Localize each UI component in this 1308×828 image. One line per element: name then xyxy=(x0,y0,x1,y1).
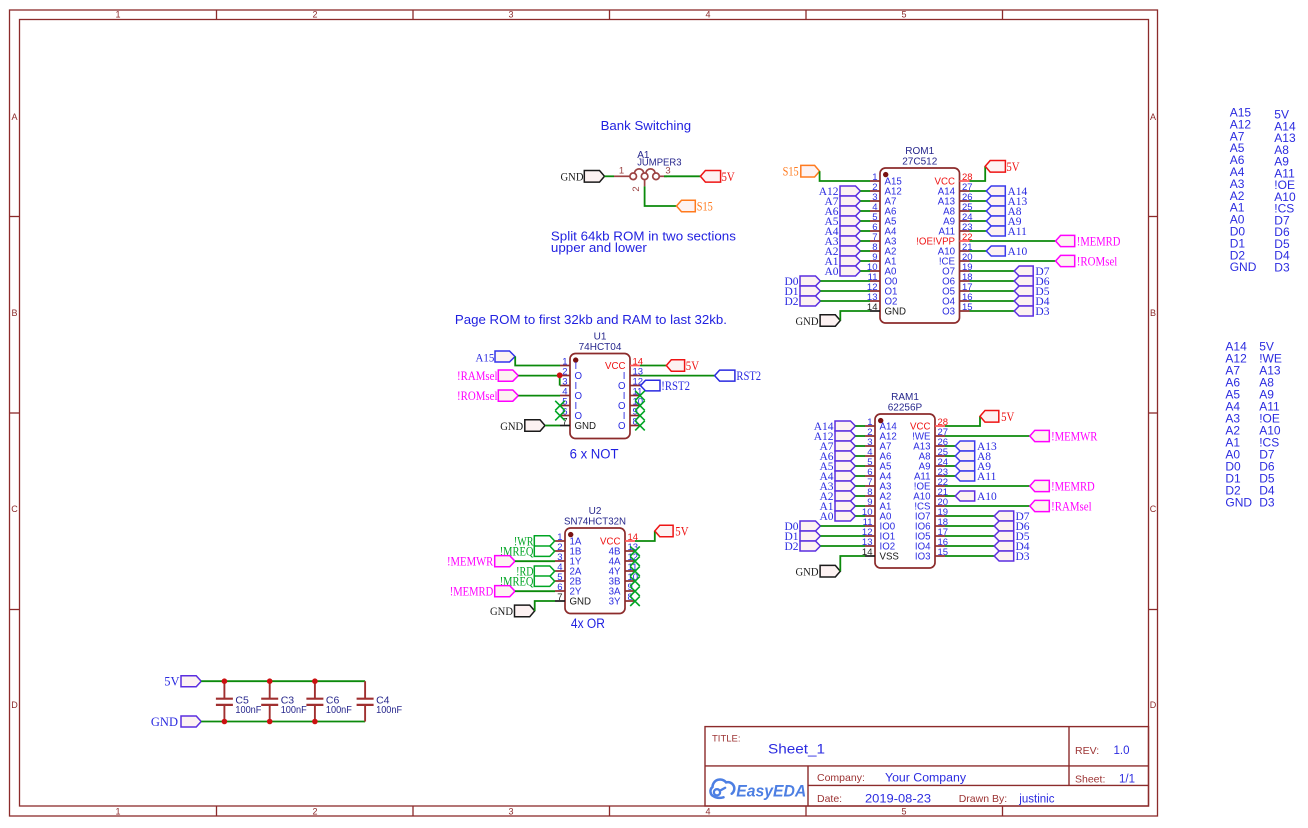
svg-text:D: D xyxy=(1150,700,1157,710)
capacitor C3 100nF xyxy=(261,681,307,721)
RAM1 pin 24 (A9) xyxy=(919,457,948,473)
no-connect X U2 pin 10 xyxy=(630,576,640,586)
ROM1 pin 23 (A11) xyxy=(938,222,972,238)
svg-text:5: 5 xyxy=(901,9,906,19)
net flag A11 (RAM1 pin 23) xyxy=(955,471,996,483)
ROM1 pin 16 (O4) xyxy=(942,292,973,308)
net flag A1 (RAM1 pin 9) xyxy=(819,501,855,513)
svg-text:A: A xyxy=(1150,112,1156,122)
RAM1 pin 27 (!WE) xyxy=(912,427,948,443)
svg-text:D3: D3 xyxy=(1016,551,1030,563)
wire ROM1 pin 27 to A14 xyxy=(970,190,987,192)
wire A1 to ROM1 pin 9 xyxy=(860,260,870,262)
ROM1 pin 22 (!OE!VPP) xyxy=(916,232,972,248)
ROM1 pin 26 (A13) xyxy=(938,192,973,208)
IC U2 SN74HCT32N body xyxy=(564,506,626,614)
svg-text:GND: GND xyxy=(575,421,597,432)
ROM1 pin 6 (A4) xyxy=(870,222,897,238)
net flag A13 (RAM1 pin 26) xyxy=(955,441,997,453)
net flag A15 (U1 pin 1) xyxy=(476,351,516,364)
svg-text:RAM1: RAM1 xyxy=(891,392,919,403)
U2 pin 3 (1Y) xyxy=(555,552,582,568)
svg-text:D3: D3 xyxy=(1035,306,1049,318)
net flag !MEMRD (ROM1 pin 22) xyxy=(1056,234,1121,248)
wire ROM1 pin 22 to !MEMRD xyxy=(970,240,1056,242)
svg-text:!MEMRD: !MEMRD xyxy=(1051,479,1095,493)
net flag !ROMsel (ROM1 pin 20) xyxy=(1056,254,1118,268)
svg-text:O: O xyxy=(618,421,626,432)
RAM1 pin 23 (A11) xyxy=(914,467,948,483)
net name list (RAM socket) xyxy=(1225,339,1281,509)
svg-text:GND: GND xyxy=(1225,495,1252,509)
ROM1 pin 5 (A5) xyxy=(870,212,896,228)
ROM1 pin 13 (O2) xyxy=(867,292,898,308)
svg-text:GND: GND xyxy=(1230,260,1257,274)
RAM1 pin 21 (A10) xyxy=(913,487,948,503)
no-connect X U2 pin 9 xyxy=(630,586,640,596)
net flag !RD (U2 pin 4) xyxy=(516,565,555,579)
capacitor C4 100nF xyxy=(357,681,403,721)
wire RAM1 pin 27 to !MEMWR xyxy=(945,435,1030,437)
wire A7 to ROM1 pin 3 xyxy=(860,200,870,202)
power flag 5V (RAM1 VCC) xyxy=(980,410,1014,424)
wire RAM1 pin 15 to D3 xyxy=(945,555,994,557)
no-connect X U2 pin 13 xyxy=(630,546,640,556)
net flag A12 (ROM1 pin 2) xyxy=(819,186,861,198)
svg-text:!MEMRD: !MEMRD xyxy=(1077,234,1121,248)
svg-text:62256P: 62256P xyxy=(888,403,923,414)
net flag A10 (ROM1 pin 21) xyxy=(986,246,1027,258)
net flag !RAMsel (RAM1 pin 20) xyxy=(1030,499,1092,513)
wire !MEMWR to U2 pin 3 xyxy=(515,560,555,562)
U1 pin 11 (I) xyxy=(623,386,643,402)
svg-text:B: B xyxy=(1150,308,1156,318)
wire A15 to U1 pin 1 xyxy=(515,357,560,366)
IC ROM1 27C512 body xyxy=(880,146,960,323)
wire D2 to ROM1 pin 13 xyxy=(820,300,870,302)
svg-text:Date:: Date: xyxy=(817,793,842,805)
junction (GND rail) xyxy=(267,719,273,725)
svg-text:Your Company: Your Company xyxy=(885,773,966,785)
svg-text:Company:: Company: xyxy=(817,772,865,784)
wire ROM1 pin 24 to A9 xyxy=(970,220,987,222)
wire RAM1 pin 16 to D4 xyxy=(945,545,994,547)
net flag A14 (ROM1 pin 27) xyxy=(986,186,1027,198)
net flag !MREQ (U2 pin 2) xyxy=(500,545,555,559)
wire A2 to RAM1 pin 8 xyxy=(855,495,865,497)
svg-text:5V: 5V xyxy=(675,524,688,538)
wire jumper A1 pin 2 to S15 xyxy=(645,186,677,206)
svg-text:100nF: 100nF xyxy=(235,704,261,716)
RAM1 pin 7 (A3) xyxy=(865,477,891,493)
svg-text:U2: U2 xyxy=(589,506,602,517)
net flag !RAMsel (U1 pin 2) xyxy=(457,369,518,383)
net flag A8 (ROM1 pin 25) xyxy=(986,206,1022,218)
svg-text:GND: GND xyxy=(500,421,523,433)
U1 pin 6 (O) xyxy=(560,406,583,422)
net flag !MEMWR (U2 pin 3) xyxy=(447,555,515,569)
wire GND to U1 pin 7 xyxy=(545,425,560,427)
RAM1 pin 25 (A8) xyxy=(919,447,948,463)
wire GND to RAM1 pin 14 xyxy=(840,556,865,571)
U1 pin 8 (O) xyxy=(618,416,640,432)
svg-text:1.0: 1.0 xyxy=(1114,745,1130,757)
net flag D7 (RAM1 pin 19) xyxy=(994,511,1030,523)
U1 pin 10 (O) xyxy=(618,396,643,412)
junction (GND rail) xyxy=(222,719,228,725)
wire A7 to RAM1 pin 3 xyxy=(855,445,865,447)
wire !MEMRD to U2 pin 6 xyxy=(515,590,555,592)
svg-text:2019-08-23: 2019-08-23 xyxy=(865,794,931,806)
wire GND to jumper A1 pin 1 xyxy=(605,175,615,177)
net flag A0 (ROM1 pin 10) xyxy=(824,266,860,278)
net flag D3 (RAM1 pin 15) xyxy=(994,551,1030,563)
ROM1 pin 9 (A1) xyxy=(870,252,896,268)
svg-text:IO3: IO3 xyxy=(915,552,931,563)
net flag D0 (ROM1 pin 11) xyxy=(784,276,820,288)
svg-text:RST2: RST2 xyxy=(736,369,761,383)
svg-text:D: D xyxy=(11,700,18,710)
RAM1 pin 26 (A13) xyxy=(913,437,948,453)
wire A3 to ROM1 pin 7 xyxy=(860,240,870,242)
net flag D7 (ROM1 pin 19) xyxy=(1014,266,1050,278)
EasyEDA logo xyxy=(710,779,806,800)
wire D2 to RAM1 pin 13 xyxy=(820,545,865,547)
no-connect X U2 pin 12 xyxy=(630,556,640,566)
power flag 5V (U1 VCC) xyxy=(666,359,699,373)
IC U1 74HCT04 body xyxy=(570,331,630,438)
net flag D4 (RAM1 pin 16) xyxy=(994,541,1030,553)
wire U1 pin 13 to RST2 xyxy=(640,375,715,377)
net flag A8 (RAM1 pin 25) xyxy=(955,451,991,463)
U1 pin 9 (I) xyxy=(623,406,640,422)
wire A5 to ROM1 pin 5 xyxy=(860,220,870,222)
net flag A9 (RAM1 pin 24) xyxy=(955,461,991,473)
RAM1 pin 17 (IO5) xyxy=(915,527,948,543)
svg-text:4: 4 xyxy=(705,9,710,19)
wire ROM1 pin 25 to A8 xyxy=(970,210,987,212)
RAM1 pin 13 (IO2) xyxy=(862,537,895,553)
svg-text:!ROMsel: !ROMsel xyxy=(457,389,498,403)
ground flag GND (ROM1 pin 14) xyxy=(796,315,841,328)
U2 pin 11 (4Y) xyxy=(609,562,638,578)
svg-text:VSS: VSS xyxy=(880,552,900,563)
svg-text:100nF: 100nF xyxy=(326,704,352,716)
net flag A2 (ROM1 pin 8) xyxy=(824,246,860,258)
U1 pin 14 (VCC) xyxy=(605,356,643,372)
wire D1 to ROM1 pin 12 xyxy=(820,290,870,292)
wire RAM1 pin 25 to A8 xyxy=(945,455,955,457)
svg-text:justinic: justinic xyxy=(1018,794,1054,806)
capacitor C6 100nF xyxy=(306,681,352,721)
ROM1 pin 25 (A8) xyxy=(943,202,972,218)
svg-text:6 x NOT: 6 x NOT xyxy=(570,447,619,462)
RAM1 pin 4 (A6) xyxy=(865,447,891,463)
net flag D2 (RAM1 pin 13) xyxy=(784,541,820,553)
svg-text:Drawn By:: Drawn By: xyxy=(959,793,1007,805)
wire A2 to ROM1 pin 8 xyxy=(860,250,870,252)
net flag A6 (RAM1 pin 4) xyxy=(819,451,855,463)
ROM1 pin 15 (O3) xyxy=(942,302,973,318)
ROM1 pin 11 (O0) xyxy=(868,272,898,288)
wire S15 to ROM1 pin 1 xyxy=(820,171,870,181)
svg-text:A: A xyxy=(11,112,17,122)
wire D1 to RAM1 pin 12 xyxy=(820,535,865,537)
U2 pin 2 (1B) xyxy=(555,542,581,558)
no-connect X U2 pin 8 xyxy=(630,596,640,606)
wire A0 to RAM1 pin 10 xyxy=(855,515,865,517)
svg-text:ROM1: ROM1 xyxy=(905,146,934,157)
RAM1 pin 8 (A2) xyxy=(865,487,891,503)
wire D0 to ROM1 pin 11 xyxy=(820,280,870,282)
net flag A10 (RAM1 pin 21) xyxy=(955,491,997,503)
wire A5 to RAM1 pin 5 xyxy=(855,465,865,467)
no-connect X U1 pin 10 xyxy=(635,401,645,411)
RAM1 pin 28 (VCC) xyxy=(910,417,948,433)
ROM1 pin 27 (A14) xyxy=(938,182,973,198)
RAM1 pin 11 (IO0) xyxy=(863,517,896,533)
RAM1 pin 2 (A12) xyxy=(865,427,897,443)
U2 pin 14 (VCC) xyxy=(600,532,638,548)
wire 5V rail xyxy=(201,680,365,682)
net flag A3 (RAM1 pin 7) xyxy=(819,481,855,493)
net flag D5 (RAM1 pin 17) xyxy=(994,531,1030,543)
svg-text:GND: GND xyxy=(796,316,819,328)
ROM1 pin 24 (A9) xyxy=(943,212,972,228)
svg-text:S15: S15 xyxy=(697,199,713,213)
svg-text:O3: O3 xyxy=(942,307,955,318)
capacitor C5 100nF xyxy=(216,681,262,721)
wire D0 to RAM1 pin 11 xyxy=(820,525,865,527)
U1 pin 7 (GND) xyxy=(560,416,596,432)
wire A0 to ROM1 pin 10 xyxy=(860,270,870,272)
ground flag GND (cap bank) xyxy=(151,715,201,729)
svg-text:EasyEDA: EasyEDA xyxy=(736,782,806,801)
net flag RST2 (U1 pin 13) xyxy=(715,369,762,383)
U2 pin 9 (3A) xyxy=(609,582,635,598)
net flag S15 (ROM1 pin 1) xyxy=(783,165,820,179)
RAM1 pin 18 (IO6) xyxy=(915,517,948,533)
net flag A11 (ROM1 pin 23) xyxy=(986,226,1027,238)
ROM1 pin 2 (A12) xyxy=(870,182,902,198)
net flag A7 (RAM1 pin 3) xyxy=(819,441,855,453)
wire ROM1 pin 28 to 5V xyxy=(970,166,986,181)
U2 pin 1 (1A) xyxy=(555,532,582,548)
wire RAM1 pin 28 to 5V xyxy=(945,416,980,426)
svg-text:1: 1 xyxy=(619,165,624,176)
svg-text:3: 3 xyxy=(665,165,670,176)
U2 pin 13 (4B) xyxy=(609,542,638,558)
svg-text:A10: A10 xyxy=(1008,246,1028,258)
ROM1 pin 12 (O1) xyxy=(867,282,898,298)
svg-text:REV:: REV: xyxy=(1075,745,1099,757)
ground flag GND (U1 pin 7) xyxy=(500,420,545,433)
svg-text:A15: A15 xyxy=(476,352,495,364)
svg-text:A0: A0 xyxy=(824,266,838,278)
wire ROM1 pin 18 to D6 xyxy=(970,280,1015,282)
RAM1 pin 16 (IO4) xyxy=(915,537,948,553)
ground flag GND (RAM1 pin 14) xyxy=(796,565,841,578)
svg-text:B: B xyxy=(11,308,17,318)
ROM1 pin 20 (!CE) xyxy=(939,252,973,268)
svg-text:1/1: 1/1 xyxy=(1119,774,1135,786)
ROM1 pin 21 (A10) xyxy=(938,242,973,258)
ROM1 pin 10 (A0) xyxy=(867,262,897,278)
wire U2 pin 14 to 5V xyxy=(635,531,655,541)
svg-text:!RAMsel: !RAMsel xyxy=(1051,499,1092,513)
wire GND to U2 pin 7 xyxy=(535,601,555,611)
wire RAM1 pin 22 to !MEMRD xyxy=(945,485,1030,487)
wire ROM1 pin 20 to !ROMsel xyxy=(970,260,1056,262)
svg-text:D2: D2 xyxy=(784,541,798,553)
wire RAM1 pin 19 to D7 xyxy=(945,515,994,517)
svg-text:7: 7 xyxy=(557,592,562,603)
svg-text:3: 3 xyxy=(508,9,513,19)
RAM1 pin 6 (A4) xyxy=(865,467,892,483)
svg-text:U1: U1 xyxy=(594,331,607,342)
U2 pin 6 (2Y) xyxy=(555,582,582,598)
svg-text:5: 5 xyxy=(901,806,906,816)
net flag D5 (ROM1 pin 17) xyxy=(1014,286,1050,298)
U2 pin 10 (3B) xyxy=(609,572,638,588)
svg-text:JUMPER3: JUMPER3 xyxy=(637,158,682,169)
net flag A13 (ROM1 pin 26) xyxy=(986,196,1027,208)
svg-text:D3: D3 xyxy=(1259,495,1275,509)
U2 pin 12 (4A) xyxy=(609,552,638,568)
svg-text:!RAMsel: !RAMsel xyxy=(457,369,498,383)
svg-text:GND: GND xyxy=(570,597,592,608)
power flag 5V (ROM1 VCC) xyxy=(985,160,1019,174)
svg-text:Page ROM to first 32kb and RAM: Page ROM to first 32kb and RAM to last 3… xyxy=(455,313,727,327)
junction (U1 pin 2/3) xyxy=(557,372,563,378)
wire RAM1 pin 20 to !RAMsel xyxy=(945,505,1030,507)
RAM1 pin 19 (IO7) xyxy=(915,507,948,523)
svg-text:2: 2 xyxy=(312,9,317,19)
no-connect X U1 pin 8 xyxy=(635,421,645,431)
wire A14 to RAM1 pin 1 xyxy=(855,425,865,427)
svg-text:Sheet_1: Sheet_1 xyxy=(768,742,825,757)
ROM1 pin 4 (A6) xyxy=(870,202,896,218)
wire RAM1 pin 21 to A10 xyxy=(945,495,955,497)
wire ROM1 pin 21 to A10 xyxy=(970,250,987,252)
IC RAM1 62256P body xyxy=(875,392,935,568)
svg-text:1: 1 xyxy=(115,806,120,816)
svg-text:D2: D2 xyxy=(784,296,798,308)
svg-text:4: 4 xyxy=(705,806,710,816)
svg-text:D3: D3 xyxy=(1274,260,1290,274)
ROM1 pin 17 (O5) xyxy=(942,282,973,298)
junction (5V rail) xyxy=(267,678,273,684)
svg-text:C: C xyxy=(11,504,18,514)
junction (5V rail) xyxy=(222,678,228,684)
wire A3 to RAM1 pin 7 xyxy=(855,485,865,487)
svg-text:100nF: 100nF xyxy=(376,704,402,716)
net flag D0 (RAM1 pin 11) xyxy=(784,521,820,533)
U1 pin 2 (O) xyxy=(560,366,583,382)
wire ROM1 pin 15 to D3 xyxy=(970,310,1015,312)
svg-text:S15: S15 xyxy=(783,165,799,179)
net flag !ROMsel (U1 pin 4) xyxy=(457,389,518,403)
svg-text:5V: 5V xyxy=(686,359,699,373)
net flag D1 (RAM1 pin 12) xyxy=(784,531,820,543)
svg-text:SN74HCT32N: SN74HCT32N xyxy=(564,517,626,528)
svg-text:TITLE:: TITLE: xyxy=(712,734,741,745)
wire RAM1 pin 18 to D6 xyxy=(945,525,994,527)
RAM1 pin 5 (A5) xyxy=(865,457,891,473)
svg-text:74HCT04: 74HCT04 xyxy=(579,342,622,353)
no-connect X U1 pin 5 xyxy=(555,401,565,411)
net flag D6 (ROM1 pin 18) xyxy=(1014,276,1050,288)
power flag 5V (cap bank) xyxy=(164,675,201,689)
net flag D6 (RAM1 pin 18) xyxy=(994,521,1030,533)
svg-text:1: 1 xyxy=(115,9,120,19)
ROM1 pin 7 (A3) xyxy=(870,232,896,248)
wire A6 to ROM1 pin 4 xyxy=(860,210,870,212)
ground flag GND (U2 pin 7) xyxy=(490,605,535,618)
wire RAM1 pin 17 to D5 xyxy=(945,535,994,537)
svg-text:!MEMWR: !MEMWR xyxy=(1051,429,1098,443)
svg-text:GND: GND xyxy=(490,606,513,618)
svg-text:5V: 5V xyxy=(1006,160,1019,174)
wire A4 to ROM1 pin 6 xyxy=(860,230,870,232)
ground flag GND (jumper A1 pin 1) xyxy=(561,171,605,184)
junction (5V rail) xyxy=(312,678,318,684)
net flag !MREQ (U2 pin 5) xyxy=(500,575,555,589)
svg-text:A11: A11 xyxy=(1008,226,1028,238)
svg-text:5V: 5V xyxy=(722,170,735,184)
net flag A2 (RAM1 pin 8) xyxy=(819,491,855,503)
no-connect X U1 pin 9 xyxy=(635,411,645,421)
wire GND to ROM1 pin 14 xyxy=(840,311,870,321)
net flag A4 (RAM1 pin 6) xyxy=(819,471,855,483)
wire ROM1 pin 16 to D4 xyxy=(970,300,1015,302)
svg-text:GND: GND xyxy=(796,567,819,579)
RAM1 pin 10 (A0) xyxy=(862,507,892,523)
wire U1 pin 14 to 5V xyxy=(640,365,666,367)
svg-text:Bank Switching: Bank Switching xyxy=(601,119,692,133)
wire A12 to ROM1 pin 2 xyxy=(860,190,870,192)
net flag A1 (ROM1 pin 9) xyxy=(824,256,860,268)
svg-text:A0: A0 xyxy=(819,511,833,523)
net flag A7 (ROM1 pin 3) xyxy=(824,196,860,208)
U1 pin 5 (I) xyxy=(560,396,577,412)
svg-text:100nF: 100nF xyxy=(281,704,307,716)
net flag !MEMRD (RAM1 pin 22) xyxy=(1030,479,1095,493)
U2 pin 7 (GND) xyxy=(555,592,591,608)
no-connect X U1 pin 6 xyxy=(555,411,565,421)
svg-text:C: C xyxy=(1150,504,1157,514)
title block xyxy=(705,727,1149,806)
svg-text:GND: GND xyxy=(151,715,178,729)
net flag D4 (ROM1 pin 16) xyxy=(1014,296,1050,308)
wire A6 to RAM1 pin 4 xyxy=(855,455,865,457)
svg-text:2: 2 xyxy=(312,806,317,816)
svg-text:!MEMWR: !MEMWR xyxy=(447,555,494,569)
net flag A0 (RAM1 pin 10) xyxy=(819,511,855,523)
ROM1 pin 3 (A7) xyxy=(870,192,896,208)
net flag A5 (RAM1 pin 5) xyxy=(819,461,855,473)
net flag S15 (jumper) xyxy=(677,199,713,213)
svg-text:GND: GND xyxy=(561,172,584,184)
net flag A3 (ROM1 pin 7) xyxy=(824,236,860,248)
ROM1 pin 19 (O7) xyxy=(942,262,973,278)
RAM1 pin 9 (A1) xyxy=(865,497,891,513)
svg-text:27C512: 27C512 xyxy=(902,157,937,168)
net name list (ROM socket) xyxy=(1230,106,1296,275)
wire ROM1 pin 26 to A13 xyxy=(970,200,987,202)
U2 pin 5 (2B) xyxy=(555,572,581,588)
svg-text:A11: A11 xyxy=(977,471,997,483)
